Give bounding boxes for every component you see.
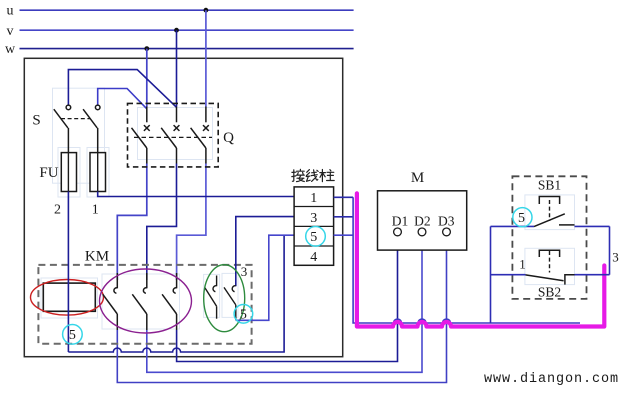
svg-text:v: v	[7, 24, 14, 39]
KM main contact 3	[162, 273, 177, 330]
svg-text:1: 1	[519, 257, 526, 272]
svg-text:3: 3	[612, 250, 619, 265]
wire SB right vertical	[609, 226, 611, 274]
breaker Q dashed box	[128, 103, 219, 166]
svg-text:M: M	[411, 170, 424, 186]
svg-text:D1: D1	[392, 214, 409, 229]
svg-text:5: 5	[310, 230, 317, 245]
faint highlight rect coil	[41, 278, 98, 318]
wire phase w drop	[146, 49, 148, 107]
cyan circle 5 at coil	[63, 325, 83, 345]
svg-text:u: u	[7, 4, 14, 19]
svg-text:SB1: SB1	[538, 178, 561, 193]
motor terminal D2	[418, 228, 426, 236]
bus v	[20, 29, 354, 31]
switch S wire from pole2 to Q pole1 top	[98, 89, 147, 109]
SB1 plunger dashed	[549, 200, 551, 221]
wire terminal1 right	[334, 196, 354, 198]
faint highlight rect fuse FU2	[87, 148, 109, 198]
svg-text:D2: D2	[414, 214, 431, 229]
SB1 button actuator	[539, 197, 559, 205]
KM main contact 1	[103, 273, 118, 330]
cyan circle 5 at terminal	[306, 227, 326, 247]
svg-text:4: 4	[310, 250, 317, 265]
svg-text:FU: FU	[39, 165, 58, 181]
contactor KM dashed box	[38, 265, 251, 344]
cyan circle 5 at SB1	[513, 208, 532, 227]
faint highlight rect fuse FU1	[58, 148, 80, 198]
svg-text:2: 2	[54, 203, 61, 218]
wire SB2 right	[575, 274, 610, 276]
breaker Q linkage dashed	[134, 136, 212, 138]
bus w	[20, 48, 354, 50]
wire fuse2 to terminal 1	[98, 192, 294, 197]
wire KM out 1 to motor D3	[117, 236, 446, 383]
motor terminal D3	[443, 228, 451, 236]
junction dot v	[174, 28, 179, 33]
svg-text:www.diangon.com: www.diangon.com	[484, 372, 619, 387]
KM aux contact pole R	[224, 286, 236, 321]
faint highlight rect aux pole R	[222, 273, 238, 317]
KM aux contact pole L	[205, 276, 217, 319]
SB1 right fixed contact	[559, 224, 575, 226]
KM coil rect	[43, 283, 95, 311]
wire aux bottom to terminal 5	[236, 235, 294, 320]
wire KM out 3 to motor D1	[177, 236, 398, 362]
wire SB1 left	[491, 225, 535, 227]
wire terminal3 right	[334, 216, 354, 218]
terminal block 接线柱	[294, 187, 334, 265]
wire phase v Q-to-KM jog	[147, 164, 177, 281]
junction dot u	[204, 8, 209, 13]
motor M box	[378, 191, 467, 250]
svg-text:5: 5	[240, 307, 247, 322]
cyan circle 5 at aux	[234, 305, 253, 324]
wire KM out 2 to motor D2	[147, 236, 422, 372]
faint highlight rect S area	[53, 88, 105, 183]
bus u	[20, 9, 354, 11]
wire coil bottom with hops	[68, 235, 284, 352]
fuse FU2 body	[90, 153, 106, 192]
wire terminal5 right	[334, 234, 354, 236]
fuse FU1 body	[61, 153, 76, 192]
svg-text:S: S	[32, 113, 40, 129]
magenta cable highlight	[357, 193, 604, 326]
switch S pole 1	[54, 105, 71, 153]
svg-text:1: 1	[92, 203, 99, 218]
SB2 button actuator	[539, 250, 559, 257]
junction dot w	[144, 46, 149, 51]
wire terminal 3 to aux contact	[236, 217, 294, 287]
SB2 right fixed contact	[565, 275, 575, 285]
SB2 plunger dashed	[549, 251, 551, 273]
svg-text:5: 5	[69, 328, 76, 343]
svg-text:3: 3	[310, 211, 317, 226]
faint highlight rect Q inner	[138, 108, 213, 160]
wire SB left vertical	[490, 226, 492, 323]
main enclosure box	[24, 58, 342, 356]
wire phase u Q-to-KM jog	[177, 164, 206, 281]
label 接线柱 (drawn strokes)	[292, 169, 334, 181]
wire phase u drop	[205, 10, 207, 106]
cable bundle blue line	[353, 197, 580, 323]
breaker Q pole 2	[161, 107, 179, 164]
wire fuse1 through coil	[67, 192, 69, 353]
faint highlight rect KM main contacts	[102, 274, 180, 329]
svg-text:5: 5	[518, 211, 525, 226]
svg-text:D3: D3	[438, 214, 455, 229]
breaker Q pole 1	[132, 107, 150, 164]
button station dashed box	[512, 176, 586, 299]
wire SB2 left	[491, 274, 526, 276]
breaker Q pole 3	[191, 107, 209, 164]
fuse wire through FU1	[67, 153, 69, 192]
svg-text:KM: KM	[85, 249, 109, 265]
wire phase v drop	[176, 30, 178, 106]
char 线	[306, 170, 310, 182]
SB1 NC blade	[534, 214, 565, 227]
SB2 NO blade	[526, 275, 564, 281]
purple ellipse around KM main contacts	[100, 269, 192, 333]
KM main contact 2	[132, 273, 147, 330]
svg-text:Q: Q	[223, 130, 234, 146]
wire phase w Q-to-KM jog	[117, 164, 147, 281]
svg-text:SB2: SB2	[538, 285, 561, 300]
char 柱	[320, 170, 326, 182]
green ellipse around aux contact	[204, 265, 245, 332]
svg-text:1: 1	[310, 191, 317, 206]
switch S pole 2	[83, 105, 100, 153]
wire SB1 right	[575, 225, 610, 227]
faint highlight rect aux pole L	[204, 274, 220, 317]
faint highlight rect SB2	[525, 248, 575, 284]
svg-text:w: w	[5, 42, 16, 57]
red ellipse around coil	[31, 280, 104, 316]
char 接	[292, 170, 296, 182]
fuse wire through FU2	[97, 153, 99, 192]
svg-text:3: 3	[241, 264, 248, 279]
switch S wire from pole1 to Q pole2 top	[68, 70, 176, 108]
motor terminal D1	[394, 228, 402, 236]
switch S linkage dashed	[61, 118, 91, 120]
faint highlight rect SB1	[525, 195, 575, 230]
